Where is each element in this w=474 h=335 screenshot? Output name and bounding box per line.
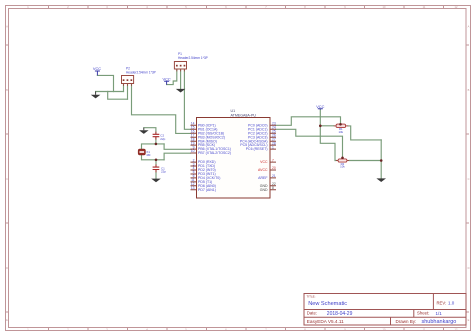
svg-text:D: D: [468, 266, 470, 270]
svg-text:PB7 (XTAL2/TOSC2): PB7 (XTAL2/TOSC2): [198, 151, 231, 155]
svg-text:1.0: 1.0: [448, 301, 455, 306]
svg-text:VCC: VCC: [260, 160, 268, 164]
svg-text:4M: 4M: [146, 153, 151, 157]
svg-text:PD7 (AIN1): PD7 (AIN1): [198, 188, 216, 192]
svg-text:D: D: [6, 266, 8, 270]
svg-text:20: 20: [272, 166, 276, 170]
svg-text:VCC: VCC: [316, 104, 324, 109]
svg-text:22p: 22p: [160, 137, 165, 141]
svg-text:shubhankargo: shubhankargo: [422, 319, 457, 325]
svg-text:TITLE:: TITLE:: [307, 294, 316, 298]
svg-text:PC6 (RESET): PC6 (RESET): [246, 147, 268, 151]
svg-text:21: 21: [272, 174, 276, 178]
svg-text:2018-04-29: 2018-04-29: [327, 311, 353, 317]
svg-text:C: C: [6, 177, 8, 181]
svg-text:10k: 10k: [339, 130, 344, 134]
svg-text:A: A: [468, 25, 470, 29]
svg-text:E: E: [468, 318, 470, 322]
svg-text:Header2.54mm 1*3P: Header2.54mm 1*3P: [178, 56, 208, 60]
svg-text:VCC: VCC: [162, 76, 170, 81]
svg-text:GND: GND: [260, 188, 268, 192]
svg-text:10: 10: [191, 149, 195, 153]
svg-text:Drawn By:: Drawn By:: [396, 319, 417, 324]
svg-text:Sheet:: Sheet:: [417, 311, 429, 316]
svg-text:E: E: [6, 318, 8, 322]
svg-text:AREF: AREF: [258, 176, 267, 180]
svg-text:REV:: REV:: [437, 300, 447, 305]
svg-text:7: 7: [272, 158, 274, 162]
svg-text:VCC: VCC: [93, 66, 101, 71]
svg-text:1/1: 1/1: [436, 311, 443, 316]
svg-text:A: A: [6, 25, 8, 29]
svg-text:ATMEGA8A-PU: ATMEGA8A-PU: [231, 113, 257, 117]
svg-text:1: 1: [272, 145, 274, 149]
svg-text:Date:: Date:: [307, 311, 317, 316]
svg-text:10k: 10k: [340, 165, 345, 169]
svg-text:B: B: [6, 88, 8, 92]
svg-text:22p: 22p: [161, 170, 166, 174]
svg-text:Header2.54mm 1*3P: Header2.54mm 1*3P: [126, 70, 156, 74]
svg-text:AVCC: AVCC: [258, 168, 268, 172]
svg-text:B: B: [468, 88, 470, 92]
svg-text:13: 13: [191, 186, 195, 190]
svg-text:EasyEDA V5.4.11: EasyEDA V5.4.11: [307, 319, 344, 324]
svg-text:C: C: [468, 177, 470, 181]
svg-text:New Schematic: New Schematic: [308, 301, 347, 307]
svg-text:8: 8: [272, 186, 274, 190]
